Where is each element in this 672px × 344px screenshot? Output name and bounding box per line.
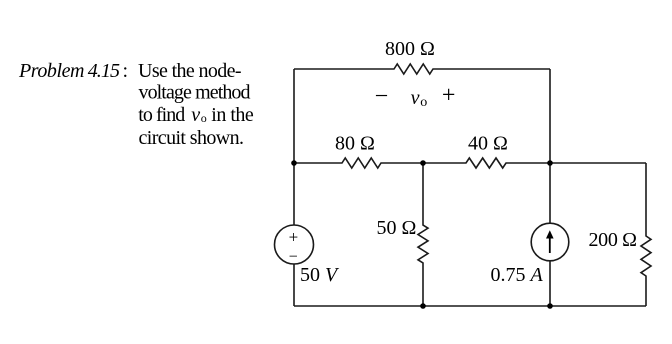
svg-text:o: o	[201, 111, 207, 125]
svg-text:to find: to find	[138, 104, 185, 126]
svg-text:in the: in the	[211, 104, 254, 126]
svg-text::: :	[123, 60, 129, 82]
svg-text:−: −	[375, 84, 389, 110]
svg-text:50 V: 50 V	[300, 264, 340, 286]
svg-text:0.75 A: 0.75 A	[491, 264, 544, 286]
svg-text:50 Ω: 50 Ω	[377, 217, 417, 239]
svg-text:800 Ω: 800 Ω	[385, 38, 435, 60]
svg-text:circuit shown.: circuit shown.	[139, 127, 245, 149]
svg-text:Use the node-: Use the node-	[138, 60, 242, 82]
svg-text:80 Ω: 80 Ω	[335, 133, 375, 155]
svg-text:+: +	[289, 227, 299, 246]
svg-text:v: v	[411, 87, 420, 109]
svg-text:200 Ω: 200 Ω	[589, 229, 638, 251]
svg-text:Problem: Problem	[18, 60, 85, 82]
svg-text:voltage method: voltage method	[139, 82, 251, 104]
svg-text:o: o	[420, 95, 427, 110]
svg-text:v: v	[191, 104, 200, 126]
svg-text:+: +	[442, 82, 456, 108]
svg-text:4.15: 4.15	[88, 60, 120, 82]
svg-text:40 Ω: 40 Ω	[468, 133, 508, 155]
svg-text:−: −	[289, 249, 298, 266]
